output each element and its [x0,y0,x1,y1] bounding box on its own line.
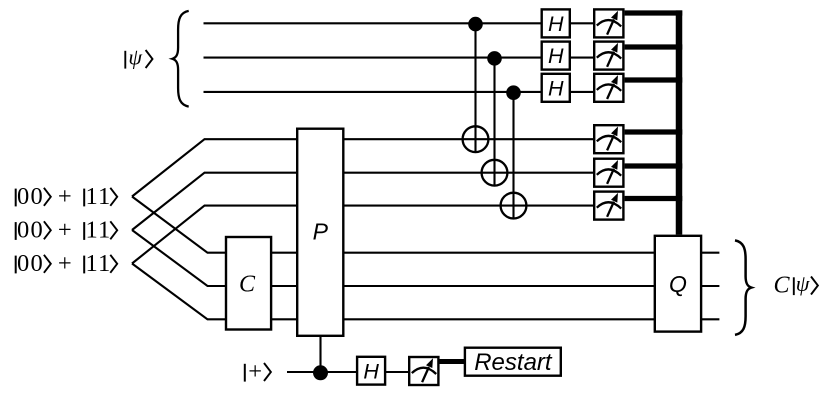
classical bus (vertical) [676,10,683,234]
svg-text:Q: Q [669,271,687,297]
wire q3 (|psi> qubit 3) [204,91,542,93]
CNOT 2 vertical line [493,58,495,185]
wire q8 C-to-P segment [271,285,297,287]
box C (correction gate) [226,237,271,330]
fan line pair 3 lower (to wire q9) [132,264,226,320]
label |00>+|11> pair 3 [16,250,118,277]
label |+> [245,358,271,385]
classical line from meter M2 [625,44,683,49]
meter M6 [594,192,623,220]
box P (process gate) [297,129,343,336]
svg-text:H: H [548,12,564,36]
label C|psi> [774,271,818,299]
wire q9 output stub [701,318,719,320]
fan line pair 3 upper (to wire q6) [132,206,297,264]
svg-text:H: H [363,359,379,383]
svg-text:H: H [548,44,564,68]
svg-text:+: + [58,183,72,210]
wire q7 C-to-P segment [271,252,297,254]
brace for |psi> group [172,11,188,107]
CNOT 3 vertical line [512,92,514,218]
svg-text:C: C [239,271,256,297]
wire q1 (|psi> qubit 1) [204,22,542,24]
meter M2 [594,42,623,70]
wire q7 output stub [701,252,719,254]
classical line from meter M3 [625,77,683,82]
fan line pair 1 lower (to wire q7) [132,197,226,253]
wire q1 H-to-meter stub [570,22,594,24]
label |00>+|11> pair 1 [16,183,118,210]
wire q6 P-to-meter segment [344,205,595,207]
svg-text:00: 00 [17,250,44,277]
wire ancilla H-to-meter stub [385,371,409,373]
label |psi> [125,44,152,69]
svg-text:11: 11 [86,216,112,243]
meter M3 [594,74,623,102]
P-to-ancilla control vertical [319,336,321,372]
box Restart [465,348,561,376]
CNOT 1 vertical line [474,23,476,151]
CNOT 2 target on q5 [482,160,508,186]
wire q7 P-to-Q segment [344,252,655,254]
svg-text:ψ: ψ [128,44,142,69]
wire q9 P-to-Q segment [344,318,655,320]
fan line pair 1 upper (to wire q4) [132,139,297,196]
CNOT 1 target on q4 [463,126,489,152]
gate H1 on q1 [542,9,570,37]
wire q9 C-to-P segment [271,318,297,320]
fan line pair 2 upper (to wire q5) [132,173,297,230]
svg-text:+: + [248,358,262,385]
meter M7 [409,357,438,385]
fan line pair 2 lower (to wire q8) [132,230,226,286]
CNOT 3 control dot on q3 [506,85,521,100]
wire q4 P-to-meter segment [344,138,595,140]
classical line from meter M6 [625,196,683,201]
wire q2 H-to-meter stub [570,57,594,59]
classical line from meter M1 [625,10,683,15]
svg-text:H: H [548,76,564,100]
wire q8 output stub [701,285,719,287]
CNOT 2 control dot on q2 [487,51,502,66]
CNOT 1 control dot on q1 [468,17,483,32]
classical line meter-to-Restart [439,359,465,364]
box Q (output gate) [655,236,701,332]
svg-text:00: 00 [17,216,44,243]
svg-text:Restart: Restart [474,349,553,376]
svg-text:11: 11 [86,183,112,210]
CNOT 3 target on q6 [501,193,527,219]
meter M1 [594,9,623,37]
gate H3 on q3 [542,74,570,102]
gate H ancilla [357,357,385,385]
meter M5 [594,159,623,187]
meter M4 [594,125,623,153]
label |00>+|11> pair 2 [16,216,118,243]
wire q8 P-to-Q segment [344,285,655,287]
wire ancilla |+> [287,371,357,373]
wire q2 (|psi> qubit 2) [204,57,542,59]
wire q5 P-to-meter segment [344,172,595,174]
svg-text:ψ: ψ [796,271,810,296]
svg-text:11: 11 [86,250,112,277]
svg-text:+: + [58,216,72,243]
control dot on ancilla [313,365,328,380]
svg-text:+: + [58,250,72,277]
classical line from meter M5 [625,163,683,168]
svg-text:00: 00 [17,183,44,210]
brace for output C|psi> [735,240,751,335]
svg-text:C: C [774,273,791,299]
gate H2 on q2 [542,42,570,70]
svg-text:P: P [313,219,329,245]
wire q3 H-to-meter stub [570,91,594,93]
classical line from meter M4 [625,129,683,134]
